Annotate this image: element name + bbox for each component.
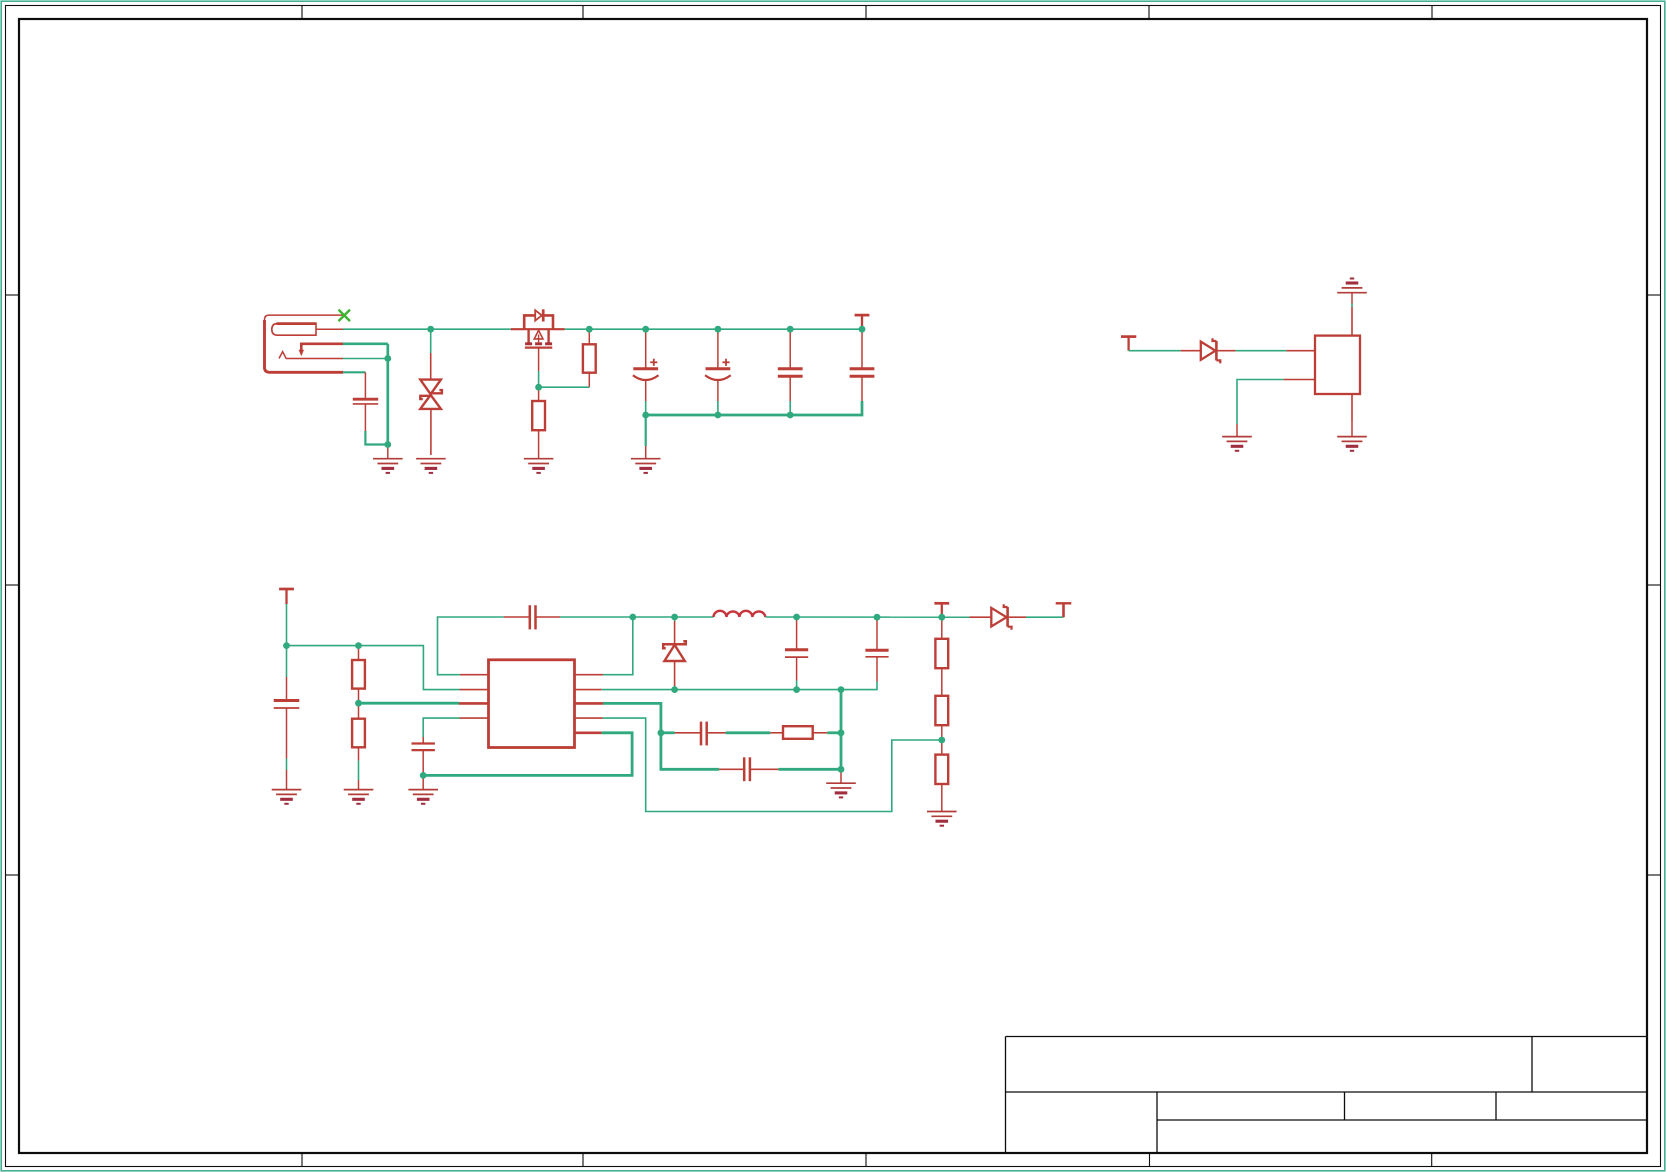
- feedback row2 drop: [661, 733, 719, 770]
- wire rail to ground: [645, 415, 647, 446]
- pin module top: [1351, 307, 1353, 336]
- capacitor C3 polarized: [705, 329, 731, 401]
- pin VCC left: [460, 717, 489, 719]
- pin module bottom: [1351, 394, 1353, 423]
- supply symbol VOUT: [1056, 602, 1072, 604]
- capacitor C8 out: [796, 619, 798, 650]
- wire main input net: [343, 328, 511, 330]
- wire input node: [287, 646, 460, 690]
- capacitor C1 jack filter: [353, 398, 378, 401]
- capacitor C5: [850, 329, 875, 401]
- supply symbol VIN: [855, 314, 870, 317]
- wire FB node: [603, 703, 661, 732]
- wire gnd L: [1237, 380, 1284, 425]
- supply symbol VBAT: [1121, 335, 1136, 338]
- capacitor C9 out: [876, 619, 878, 650]
- resistor R8 divider: [935, 755, 948, 784]
- diode D2 freewheel: [674, 617, 676, 621]
- wire switch vertical: [386, 344, 389, 445]
- feedback row1: capacitor C11: [661, 731, 675, 734]
- capacitor C4: [778, 329, 803, 401]
- capacitor C2 polarized: [633, 329, 659, 401]
- resistor R2 gate pulldown: [538, 387, 540, 401]
- wire bootstrap left: [438, 617, 504, 675]
- wire sw out: [765, 616, 969, 618]
- pin IC VIN: [460, 689, 489, 691]
- connector J1 barrel jack outline: [265, 315, 344, 321]
- diode D4: [1181, 350, 1201, 352]
- supply symbol VOUT tap: [934, 602, 949, 605]
- supply symbol VIN2: [279, 588, 294, 591]
- wire ic gnd: [423, 733, 632, 776]
- wire gnd rail: [602, 682, 877, 690]
- wire switch pin lower: [343, 358, 388, 360]
- pin COMP right: [575, 717, 603, 719]
- module U2: [1315, 336, 1360, 394]
- junction dots circuit1: [384, 326, 865, 448]
- wire to diode: [1129, 350, 1181, 352]
- wire comp long feedback: [603, 718, 942, 811]
- resistor R3 divider top: [358, 646, 360, 660]
- TVS diode D1: [430, 329, 432, 353]
- resistor R1 gate-source: [588, 329, 590, 344]
- pin GND left bottom: [575, 731, 602, 734]
- pin SW right: [575, 674, 604, 676]
- connector J1 pin 1 tip contact: [272, 324, 316, 336]
- wire switch pin top: [343, 342, 388, 345]
- resistor R7 divider: [935, 696, 948, 725]
- wire jack sleeve: [343, 371, 365, 373]
- IC U1 regulator: [489, 660, 575, 748]
- wire switch node: [633, 616, 714, 618]
- wire fb right vertical: [840, 690, 843, 770]
- wire SW to switch node: [603, 617, 633, 675]
- feedback row1: resistor R5: [770, 732, 783, 734]
- pin GND2 right: [575, 689, 602, 691]
- junction dots circuit2: [283, 614, 945, 779]
- wire cap to gnd: [365, 431, 387, 445]
- pin module VIN: [1286, 350, 1315, 352]
- pin BST left: [460, 674, 489, 676]
- feedback row2: capacitor C12: [719, 768, 744, 770]
- ground inverted: [1337, 279, 1367, 293]
- connector J1 pin 2 switch contact: [301, 344, 343, 351]
- pin module GND: [1284, 379, 1315, 381]
- wire supply to node: [286, 604, 288, 646]
- wire main net after mosfet: [565, 328, 862, 330]
- diode D3 output: [970, 616, 992, 618]
- inductor L1: [714, 611, 766, 617]
- unconnected-pin X marker: [339, 310, 351, 322]
- resistor R4 divider bottom: [358, 703, 360, 719]
- title block: [1006, 1037, 1648, 1154]
- capacitor C7 bootstrap: [504, 616, 530, 618]
- wire EN sense to IC: [359, 702, 460, 705]
- capacitor C10 vcc: [423, 718, 459, 737]
- resistor R6 divider: [941, 617, 943, 639]
- pin FB right thick: [575, 702, 604, 705]
- transistor Q1 P-MOSFET: [511, 328, 565, 330]
- capacitor C6 input bulk: [286, 646, 288, 677]
- ground: [373, 459, 403, 473]
